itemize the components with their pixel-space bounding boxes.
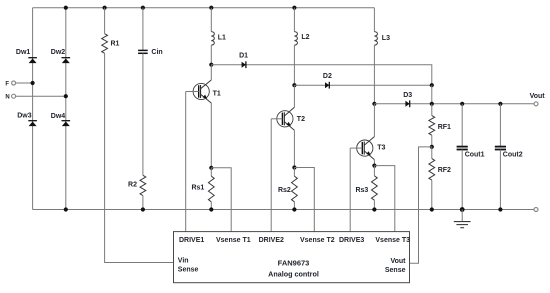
wire T3 collector xyxy=(373,104,375,137)
svg-text:DRIVE2: DRIVE2 xyxy=(259,237,284,244)
wire D2 output line xyxy=(294,84,431,86)
node D1/D2 join xyxy=(430,83,434,87)
wire Rs1 top stub xyxy=(210,168,212,176)
ground xyxy=(454,210,471,228)
svg-text:Sense: Sense xyxy=(385,267,406,274)
wire Rs3 top stub xyxy=(373,166,375,176)
svg-text:RF1: RF1 xyxy=(438,124,451,131)
wire tap to RF2 xyxy=(431,147,433,159)
transistor T3 xyxy=(350,137,385,160)
svg-text:D1: D1 xyxy=(239,53,248,60)
svg-text:Cin: Cin xyxy=(151,49,162,56)
node bottom rail / Rs1 xyxy=(209,207,213,211)
resistor RF1 xyxy=(429,116,451,136)
wire L3 to node xyxy=(373,45,375,104)
wire Vout sense line xyxy=(410,147,432,263)
wire D1 output line xyxy=(211,65,431,86)
resistor Rs2 xyxy=(278,176,297,202)
node Rs1 top / Vsense T1 tap xyxy=(209,166,213,170)
svg-text:Dw2: Dw2 xyxy=(51,49,66,56)
terminal F xyxy=(12,81,16,85)
node bottom rail / Dw4 xyxy=(64,207,68,211)
wire Vsense T3 pin xyxy=(374,166,394,232)
wire rail to RF1 xyxy=(431,104,433,116)
node top rail / L1 xyxy=(209,6,213,10)
wire rail to L1 xyxy=(210,8,212,32)
svg-text:Sense: Sense xyxy=(178,266,199,273)
diode D2 xyxy=(323,73,332,89)
diode D1 xyxy=(239,53,248,68)
capacitor Cout1 xyxy=(457,147,485,159)
wire bottom rail xyxy=(33,209,534,211)
wire T3 emitter to Rs3 xyxy=(373,160,375,166)
svg-text:Vout: Vout xyxy=(390,258,406,265)
svg-text:Dw4: Dw4 xyxy=(51,113,66,120)
wire Rs2 to bottom rail xyxy=(293,202,295,210)
svg-text:T3: T3 xyxy=(377,145,385,152)
node L2/T2/D2 xyxy=(292,83,296,87)
node top rail / Cin xyxy=(141,6,145,10)
wire rail to Cin xyxy=(142,8,144,51)
svg-text:F: F xyxy=(5,81,9,87)
node L1/T1/D1 xyxy=(209,63,213,67)
wire RF1 to tap xyxy=(431,135,433,147)
node top rail / Dw2 xyxy=(64,6,68,10)
node bottom rail / Rs2 xyxy=(292,207,296,211)
wire L2 to node xyxy=(293,45,295,85)
node bottom rail / Rs3 xyxy=(372,207,376,211)
wire Vsense T1 pin xyxy=(211,168,231,232)
svg-text:Vsense T1: Vsense T1 xyxy=(216,237,251,244)
wire rail to R1 xyxy=(104,8,106,34)
svg-text:Vout: Vout xyxy=(530,93,546,100)
svg-text:D2: D2 xyxy=(323,73,332,80)
capacitor Cin xyxy=(138,49,163,56)
inductor L2 xyxy=(294,32,309,45)
node bottom rail / RF2 xyxy=(430,207,434,211)
svg-text:R1: R1 xyxy=(111,40,120,47)
svg-text:L3: L3 xyxy=(382,35,390,42)
svg-text:DRIVE3: DRIVE3 xyxy=(339,237,364,244)
wire top rail xyxy=(33,7,375,9)
wire T2 emitter to Rs2 xyxy=(293,130,295,167)
wire L1 to node xyxy=(210,45,212,65)
svg-text:T2: T2 xyxy=(297,116,305,123)
wire T1 collector xyxy=(210,65,212,80)
svg-text:L1: L1 xyxy=(218,35,226,42)
wire T2 collector xyxy=(293,85,295,107)
wire rail to L2 xyxy=(293,8,295,32)
svg-text:Analog control: Analog control xyxy=(268,269,319,278)
transistor T2 xyxy=(271,107,305,130)
diode Dw3 xyxy=(17,112,37,126)
resistor RF2 xyxy=(429,159,451,181)
diode Dw4 xyxy=(51,113,70,126)
diode D3 xyxy=(403,92,412,107)
node Rs2 top / Vsense T2 tap xyxy=(292,165,296,169)
wire rail corner to L3 xyxy=(373,8,375,32)
terminal N xyxy=(12,94,16,98)
diode Dw1 xyxy=(16,49,37,63)
svg-text:DRIVE1: DRIVE1 xyxy=(179,237,204,244)
node F-bridge junction xyxy=(30,81,34,85)
wire Rs2 top stub xyxy=(293,168,295,177)
wire Cout2 to bottom rail xyxy=(499,150,501,210)
node Rs3 top / Vsense T3 tap xyxy=(372,164,376,168)
node RF1/RF2 tap xyxy=(430,145,434,149)
node Vout rail / RF1 xyxy=(430,102,434,106)
svg-text:L2: L2 xyxy=(301,34,309,41)
terminal Vout xyxy=(534,102,538,106)
wire Vout rail xyxy=(374,103,534,105)
node bottom rail / Cout2 xyxy=(498,207,502,211)
svg-text:Vin: Vin xyxy=(178,257,189,264)
svg-text:Cout2: Cout2 xyxy=(503,152,523,159)
wire rail to Cout1 xyxy=(461,104,463,147)
node top rail / L2 xyxy=(292,6,296,10)
resistor R1 xyxy=(102,34,120,54)
wire F to bridge xyxy=(16,82,33,84)
wire DRIVE3 pin xyxy=(349,148,351,232)
inductor L1 xyxy=(211,32,226,45)
node N-bridge junction xyxy=(64,94,68,98)
svg-text:D3: D3 xyxy=(403,92,412,99)
transistor T1 xyxy=(186,80,221,103)
svg-text:Cout1: Cout1 xyxy=(465,152,485,159)
node bottom rail / R2 xyxy=(141,207,145,211)
wire DRIVE1 pin xyxy=(185,92,187,232)
wire Rs3 to bottom rail xyxy=(373,200,375,209)
node L3/T3/D3 xyxy=(372,102,376,106)
terminal bottom right xyxy=(534,208,538,212)
inductor L3 xyxy=(374,32,390,45)
svg-text:Dw1: Dw1 xyxy=(16,49,31,56)
capacitor Cout2 xyxy=(495,147,523,159)
wire Rs1 to bottom rail xyxy=(210,202,212,210)
svg-text:RF2: RF2 xyxy=(438,167,451,174)
svg-text:N: N xyxy=(5,95,9,101)
svg-text:T1: T1 xyxy=(213,90,221,97)
wire rail to Cout2 xyxy=(499,104,501,147)
svg-text:R2: R2 xyxy=(128,181,137,188)
svg-text:FAN9673: FAN9673 xyxy=(278,258,310,267)
op-amp U1 FAN9673 controller box xyxy=(174,232,411,283)
svg-text:Rs1: Rs1 xyxy=(191,185,204,192)
resistor R2 xyxy=(128,175,146,195)
wire Vsense T2 pin xyxy=(294,168,314,232)
wire Cin to R2 xyxy=(142,53,144,175)
wire left bridge leg Dw1/Dw3 xyxy=(32,8,34,210)
wire bridge leg Dw2/Dw4 xyxy=(65,8,67,210)
svg-text:Dw3: Dw3 xyxy=(17,112,32,119)
wire RF2 to bottom rail xyxy=(431,180,433,209)
wire R1 to Vin Sense xyxy=(105,53,174,262)
svg-text:Vsense T3: Vsense T3 xyxy=(375,237,410,244)
node bottom rail / Cout1 / ground xyxy=(460,207,465,212)
wire join to Vout rail xyxy=(431,85,433,104)
resistor Rs3 xyxy=(355,176,377,200)
wire DRIVE2 pin xyxy=(270,119,272,232)
diode Dw2 xyxy=(51,49,70,63)
wire R2 to bottom rail xyxy=(142,196,144,210)
svg-text:Vsense T2: Vsense T2 xyxy=(300,237,335,244)
resistor Rs1 xyxy=(191,176,214,202)
node Vout rail / Cout2 xyxy=(498,102,502,106)
svg-text:Rs3: Rs3 xyxy=(355,187,368,194)
wire Cout1 to bottom rail xyxy=(461,150,463,210)
wire N to bridge xyxy=(16,95,66,97)
node top rail / R1 xyxy=(103,6,107,10)
node Vout rail / Cout1 xyxy=(460,102,464,106)
wire T1 emitter to Rs1 xyxy=(210,103,212,168)
svg-text:Rs2: Rs2 xyxy=(278,187,291,194)
